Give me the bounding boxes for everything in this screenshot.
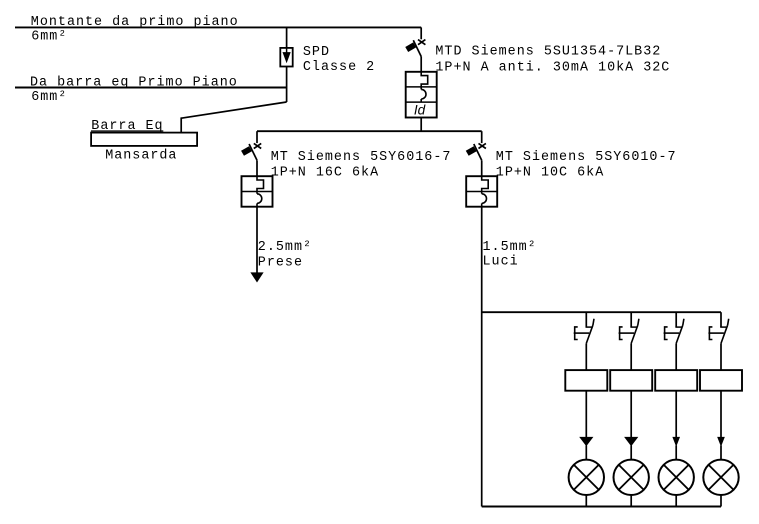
svg-text:MTD Siemens 5SU1354-7LB32: MTD Siemens 5SU1354-7LB32 xyxy=(435,45,661,60)
lamp E1 xyxy=(569,460,604,495)
lamp E2 xyxy=(614,460,649,495)
wire: luci feeder vertical xyxy=(481,207,483,507)
wire: diagonal to Barra Eq xyxy=(181,102,286,118)
svg-text:6mm²: 6mm² xyxy=(31,30,67,45)
wire: contact to MTD box xyxy=(420,57,422,72)
wire: switch S2 to relay xyxy=(630,343,632,370)
wire: contact to MT2 box xyxy=(481,160,483,176)
svg-text:Luci: Luci xyxy=(483,255,519,270)
switch S4 (push-button contact) xyxy=(721,325,728,343)
wire+arrow: relay K2 to lamp xyxy=(630,391,632,444)
svg-text:1P+N 16C 6kA: 1P+N 16C 6kA xyxy=(271,166,379,181)
breaker contact MT1 Q2 (x mark, lever, handle) xyxy=(254,143,261,148)
busbar Barra Eq Mansarda xyxy=(91,133,197,146)
wire: switch S3 to relay xyxy=(675,343,677,370)
wire: feed to MT2 Q3 xyxy=(481,131,483,143)
wire: line1 to SPD xyxy=(286,27,288,48)
switch S3 (push-button contact) xyxy=(676,325,683,343)
MCB MT2 body (thermal+magnetic) xyxy=(466,176,497,207)
relay K3 xyxy=(655,370,697,391)
RCBO MTD body (thermal+magnetic+differential) xyxy=(406,72,437,118)
wire: feed to MT1 Q2 xyxy=(256,131,258,143)
wire: da barra eq feeder line xyxy=(15,87,287,89)
svg-text:Montante da primo piano: Montante da primo piano xyxy=(31,15,239,30)
wire: lamp circuit bottom return xyxy=(482,506,721,508)
svg-text:SPD: SPD xyxy=(303,45,330,60)
relay K4 xyxy=(700,370,742,391)
lamp E3 xyxy=(659,460,694,495)
wire: MT1 to prese outlet xyxy=(256,207,258,274)
bus: distribution busbar xyxy=(257,130,482,132)
relay K1 xyxy=(565,370,607,391)
wire: switch S4 to relay xyxy=(720,343,722,370)
wire+arrow: relay K1 to lamp xyxy=(585,391,587,444)
svg-text:Mansarda: Mansarda xyxy=(105,149,177,164)
switch S1 (push-button contact) xyxy=(586,325,593,343)
wire: SPD to junction xyxy=(286,67,288,103)
svg-text:Id: Id xyxy=(414,103,426,118)
wire: MTD to bus xyxy=(420,118,422,132)
svg-text:Classe 2: Classe 2 xyxy=(303,60,375,75)
wire: contact to MT1 box xyxy=(256,160,258,176)
svg-text:Prese: Prese xyxy=(258,255,303,270)
svg-text:Barra Eq: Barra Eq xyxy=(91,119,163,134)
wire: tap to switch S3 xyxy=(675,312,677,327)
wire+arrow: relay K3 to lamp xyxy=(675,391,677,444)
breaker contact MTD Q1 (x mark, lever, handle) xyxy=(418,40,425,45)
svg-text:1.5mm²: 1.5mm² xyxy=(483,240,537,255)
wire: tap to switch S2 xyxy=(630,312,632,327)
svg-text:1P+N 10C 6kA: 1P+N 10C 6kA xyxy=(496,166,604,181)
MCB MT1 body (thermal+magnetic) xyxy=(242,176,273,207)
wire: drop to Barra Eq xyxy=(180,117,182,132)
svg-text:6mm²: 6mm² xyxy=(31,90,67,105)
wire: switch S1 to relay xyxy=(585,343,587,370)
surge arrester SPD U1 xyxy=(280,48,292,67)
relay K2 xyxy=(610,370,652,391)
wire: feed to MTD Q1 xyxy=(420,27,422,39)
wire: lamp E3 to return xyxy=(675,495,677,507)
svg-text:MT Siemens 5SY6010-7: MT Siemens 5SY6010-7 xyxy=(496,150,677,165)
arrow: prese feeder end xyxy=(251,273,262,282)
wire: lamp E2 to return xyxy=(630,495,632,507)
wire: lamp E1 to return xyxy=(585,495,587,507)
breaker contact MT2 Q3 (x mark, lever, handle) xyxy=(479,143,486,148)
svg-text:2.5mm²: 2.5mm² xyxy=(258,240,312,255)
wire: tap to switch S4 xyxy=(720,312,722,327)
svg-text:1P+N A anti. 30mA 10kA 32C: 1P+N A anti. 30mA 10kA 32C xyxy=(435,61,670,76)
wire: tap to switch S1 xyxy=(585,312,587,327)
lamp E4 xyxy=(703,460,738,495)
bus: lamp circuit top xyxy=(482,311,721,313)
wire+arrow: relay K4 to lamp xyxy=(720,391,722,444)
switch S2 (push-button contact) xyxy=(631,325,638,343)
wire: montante feeder line xyxy=(15,26,421,28)
svg-text:MT Siemens 5SY6016-7: MT Siemens 5SY6016-7 xyxy=(271,150,452,165)
svg-text:Da barra eq Primo Piano: Da barra eq Primo Piano xyxy=(30,75,238,90)
wire: lamp E4 to return xyxy=(720,495,722,507)
